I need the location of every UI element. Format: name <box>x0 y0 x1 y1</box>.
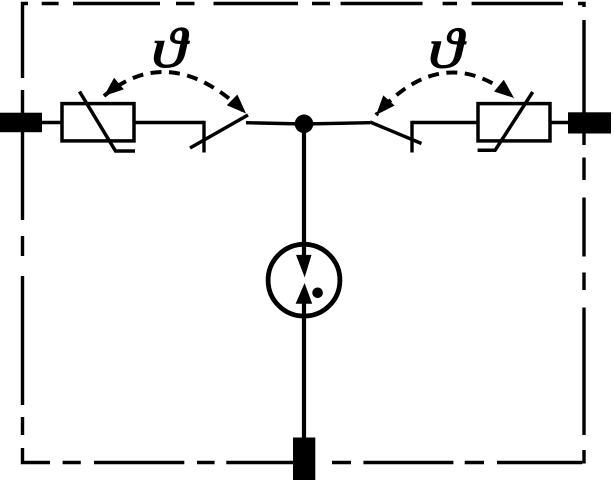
border top side dashes <box>42 2 563 5</box>
thermal arc right arrowhead (to switch) <box>376 95 395 115</box>
border right side dashes <box>582 20 585 435</box>
terminal X2 (right) <box>568 112 611 133</box>
border left side dashes <box>21 90 24 435</box>
wire F2 to varistor RV2 <box>412 121 478 124</box>
wire center node down to GDT <box>302 124 306 262</box>
svg-text:ϑ: ϑ <box>428 17 467 79</box>
thermal disconnect F1 switch blade <box>190 115 248 148</box>
wire RV1 to thermal disconnect F1 <box>134 121 204 124</box>
thermal arc right arrowhead (to varistor) <box>494 80 514 98</box>
border bottom-left corner <box>23 448 51 463</box>
wire RV2 to right terminal <box>550 121 570 124</box>
border bottom side dashes <box>63 461 583 464</box>
node junction dot <box>295 115 314 134</box>
varistor RV2 body (right) <box>478 104 550 141</box>
varistor RV1 diagonal stroke <box>80 92 136 152</box>
border bottom-right corner <box>582 450 585 464</box>
thermal disconnect F2 fixed contact bar <box>410 121 413 153</box>
wire center node to thermal disconnect F2 <box>304 123 370 124</box>
svg-text:ϑ: ϑ <box>151 17 190 79</box>
terminal X1 (left) <box>0 113 42 133</box>
GDT radioactive trigger dot <box>312 288 323 299</box>
thermal arc left arrowhead (to switch) <box>227 95 246 114</box>
thermal coupling arc left (dashed) <box>104 72 246 114</box>
terminal X3 (bottom) <box>293 438 315 480</box>
wire GDT down to bottom terminal <box>302 299 306 438</box>
thermal coupling arc right (dashed) <box>376 72 514 115</box>
thermal disconnect F1 fixed contact bar <box>202 121 205 153</box>
varistor RV2 diagonal stroke <box>478 92 533 150</box>
varistor RV1 body (left) <box>62 104 134 141</box>
wire left terminal to varistor RV1 <box>42 121 62 124</box>
GDT upper electrode arrow (down) <box>296 255 312 278</box>
border top-right corner <box>578 4 584 8</box>
gas discharge tube body <box>268 244 340 316</box>
wire F1 to center node <box>246 123 304 124</box>
thermal arc left arrowhead (to varistor) <box>104 78 124 96</box>
GDT lower electrode arrow (up) <box>296 283 313 304</box>
thermal disconnect F2 switch blade <box>370 122 422 144</box>
border top-left corner <box>23 4 29 79</box>
